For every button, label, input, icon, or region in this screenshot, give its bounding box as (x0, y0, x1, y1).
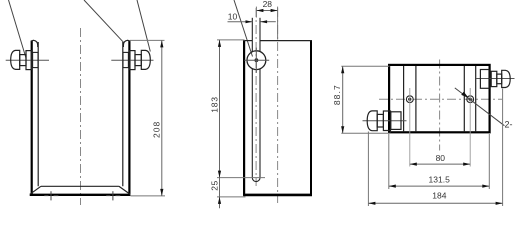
hole horizontal crosshair (244, 59, 269, 61)
right hole circle (467, 96, 474, 103)
leader line to right tab (84, 0, 124, 42)
dimension 88.7 arrow up (341, 66, 344, 73)
dimension 184 extension left (367, 132, 369, 207)
plate bottom edge (thick) (243, 194, 312, 197)
slot right edge lower (259, 69, 261, 178)
dimension 208 arrow down (160, 189, 163, 196)
dimension 88.7 extension bottom (341, 132, 391, 134)
dimension 184 arrow right (496, 202, 503, 205)
slot left edge upper (251, 18, 253, 52)
svg-text:131.5: 131.5 (429, 174, 451, 184)
plate top edge right of slot (260, 40, 312, 42)
dimension 10 line right part (260, 21, 276, 23)
dimension 80 arrow left (410, 163, 417, 166)
left bolt neck (377, 114, 383, 127)
svg-text:28: 28 (263, 0, 273, 9)
dimension 80 arrow right (463, 163, 470, 166)
inner vertical line 1 (403, 66, 405, 131)
left bolt centerline (363, 120, 407, 122)
svg-text:80: 80 (436, 153, 446, 163)
dimension 183 arrow down / 25 upper arrow (218, 171, 221, 178)
right bolt head (141, 50, 150, 69)
inner vertical line 3 (463, 66, 465, 131)
dimension 131.5 line (389, 185, 490, 187)
svg-text:183: 183 (209, 96, 219, 113)
hole circle (247, 51, 266, 70)
dimension 28 arrow left (256, 9, 263, 12)
left chamfer (30, 186, 41, 194)
right bolt centerline (476, 78, 515, 80)
dimension 10 line left part (228, 21, 253, 23)
dimension 131.5 extension right (488, 134, 490, 189)
dimension 208 arrow up (160, 40, 163, 47)
vertical centerline (439, 60, 441, 151)
svg-text:208: 208 (151, 121, 161, 138)
right bolt neck (135, 55, 141, 66)
dimension 28 arrow right (271, 9, 278, 12)
slot left edge lower (251, 69, 253, 178)
dimension 10 arrow left-pointing (260, 20, 267, 23)
dimension 88.7 arrow down (341, 126, 344, 133)
dimension 88.7 line (342, 66, 344, 133)
left bolt centerline (6, 59, 49, 61)
leader arrowhead at hole (461, 92, 468, 98)
right hole center dot (469, 98, 472, 101)
right bolt hole in plate (123, 52, 128, 67)
left bolt head (367, 111, 377, 131)
svg-text:2-: 2- (505, 120, 513, 130)
right bolt centerline (111, 59, 153, 61)
inner vertical line 4 (475, 66, 477, 131)
dimension 28 extension left (solid top of slot centerline) (255, 7, 257, 18)
leader line to left bolt (9, 0, 27, 58)
left bolt nut block inside (391, 112, 401, 130)
slot centerline (255, 8, 257, 186)
left bolt washer (383, 111, 390, 131)
right plate outer edge (thick) (128, 41, 130, 194)
dimension 208 line (161, 40, 163, 196)
bottom outer edge (thick) (30, 194, 131, 196)
leader line to slot (234, 0, 253, 57)
leader line to right bolt head (137, 0, 150, 52)
left tab top (rounded inner corner) (31, 40, 38, 47)
svg-text:88.7: 88.7 (332, 84, 342, 105)
dimension 183 extension top (217, 39, 245, 41)
dimension 80 line (410, 163, 470, 165)
right plate inner edge (122, 42, 124, 186)
dimension 184 extension right (502, 89, 504, 207)
left bolt hole in plate (33, 52, 38, 67)
slot right edge upper (259, 18, 261, 52)
dimension 208 extension line bottom (131, 195, 166, 197)
plate centerline (277, 8, 279, 203)
dimension 131.5 arrow left (389, 185, 396, 188)
dimension 183 arrow up (218, 40, 221, 47)
dimension 183/25 line (219, 40, 221, 208)
main rectangle outline (thick) (389, 65, 490, 132)
right bolt head (502, 70, 511, 87)
dimension 184 line (368, 202, 502, 204)
right bolt neck (497, 74, 502, 84)
bottom hole center mark right (106, 191, 120, 200)
dimension 28 extension right (solid top of plate centerline) (277, 7, 279, 40)
vertical centerline (80, 28, 82, 205)
right hole center mark / extension to 80 dim (469, 88, 471, 167)
plate top edge left of slot (243, 40, 252, 42)
dimension 10 arrow right-pointing (246, 20, 253, 23)
right bolt washer (491, 71, 497, 86)
left plate inner edge (37, 42, 39, 186)
dimension 183/25 shared extension at slot bottom (217, 177, 265, 179)
dimension 25 arrow up from below (218, 197, 221, 204)
svg-text:10: 10 (228, 12, 238, 22)
left hole center dot (408, 98, 411, 101)
left plate outer edge (thick) (31, 41, 33, 194)
slot bottom arc (252, 178, 260, 182)
left hole center mark / extension to 80 dim (409, 88, 411, 167)
left bolt nut (26, 51, 32, 70)
plate left edge (thick) (243, 40, 245, 196)
right tab top (rounded inner corner) (123, 40, 130, 47)
bottom inner edge (41, 185, 119, 187)
hole vertical crosshair (255, 48, 257, 73)
bottom hole center mark left (44, 191, 58, 200)
right bolt nut block inside (480, 70, 489, 89)
inner vertical line 2 (415, 66, 417, 131)
plate right edge (thick) (310, 40, 312, 196)
leader line to right hole (455, 88, 505, 126)
dimension 28 line (256, 10, 277, 12)
dimension 88.7 extension top (341, 65, 389, 67)
left hole circle (406, 96, 413, 103)
right bolt nut (130, 51, 136, 70)
left bolt neck (20, 55, 26, 66)
dimension 184 arrow left (368, 202, 375, 205)
dimension 25 extension bottom (217, 196, 246, 198)
right chamfer (119, 186, 130, 194)
hole center dot (255, 58, 259, 62)
dimension 131.5 arrow right (482, 185, 489, 188)
svg-text:25: 25 (210, 180, 220, 190)
dimension 131.5 extension left (388, 134, 390, 189)
left bolt head (11, 50, 20, 69)
dimension 208 extension line top (130, 39, 165, 41)
svg-text:184: 184 (432, 191, 446, 201)
horizontal centerline through holes (379, 98, 502, 100)
